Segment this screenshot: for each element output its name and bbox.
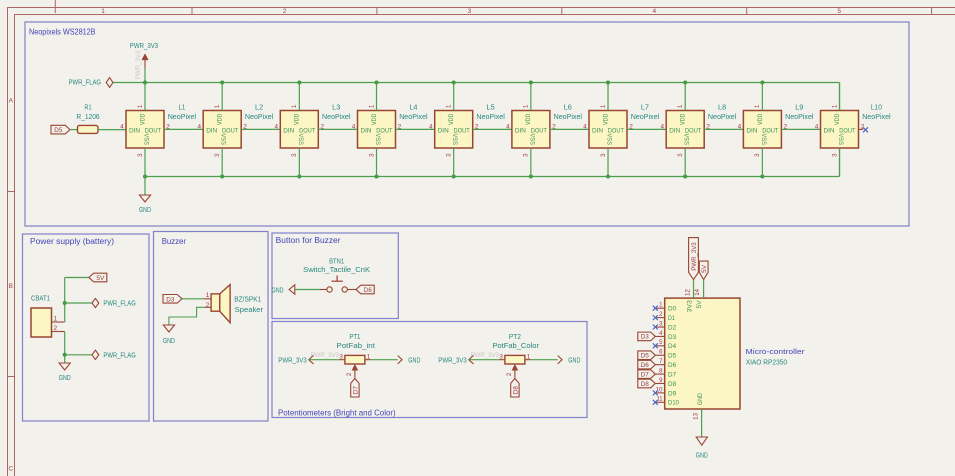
- pin 2 D1: [655, 312, 675, 322]
- svg-text:NeoPixel: NeoPixel: [862, 112, 891, 121]
- junction battery gnd: [63, 353, 67, 357]
- junction bottom rail 1: [143, 175, 147, 179]
- svg-text:GND: GND: [272, 285, 284, 294]
- svg-text:5V: 5V: [696, 300, 703, 309]
- svg-text:VDD: VDD: [294, 113, 301, 125]
- svg-text:R1: R1: [85, 103, 92, 112]
- section box Potentiometers: [272, 322, 587, 418]
- pin 9 D8: [655, 378, 676, 388]
- junction top rail 7: [606, 81, 610, 85]
- svg-text:GND: GND: [697, 393, 704, 405]
- svg-text:2: 2: [506, 372, 513, 376]
- svg-text:3: 3: [214, 153, 221, 157]
- wire VDD stub L5: [453, 83, 455, 111]
- svg-text:VSS: VSS: [760, 133, 767, 144]
- svg-text:GND: GND: [408, 355, 420, 364]
- power flag PWR_FLAG 2: [92, 350, 136, 359]
- power label PWR_3V3 (mcu): [689, 238, 699, 280]
- svg-text:VSS: VSS: [837, 133, 844, 144]
- svg-text:14: 14: [695, 288, 701, 296]
- svg-text:D9: D9: [668, 390, 676, 397]
- svg-text:VSS: VSS: [220, 134, 227, 145]
- wire battery pin1 up: [65, 278, 89, 323]
- svg-text:D10: D10: [668, 400, 679, 407]
- wire VSS stub L4: [376, 148, 378, 177]
- svg-text:DIN: DIN: [824, 127, 835, 134]
- svg-text:Power supply (battery): Power supply (battery): [30, 237, 114, 246]
- svg-text:D8: D8: [512, 386, 519, 395]
- svg-text:VSS: VSS: [605, 133, 612, 144]
- junction bottom rail 7: [606, 175, 610, 179]
- svg-text:L10: L10: [871, 103, 882, 112]
- svg-text:3: 3: [445, 153, 452, 157]
- svg-text:VDD: VDD: [525, 113, 532, 125]
- wire mcu gnd: [701, 409, 703, 437]
- svg-text:1: 1: [754, 104, 761, 108]
- svg-text:L8: L8: [718, 103, 726, 112]
- svg-text:DIN: DIN: [592, 127, 603, 134]
- svg-text:GND: GND: [696, 451, 708, 460]
- no-connect pin 2: [653, 315, 658, 320]
- svg-text:L4: L4: [409, 103, 417, 112]
- svg-text:1: 1: [214, 104, 221, 108]
- svg-text:3: 3: [291, 153, 298, 157]
- neopixel L3: [275, 103, 351, 157]
- svg-text:VSS: VSS: [142, 134, 149, 145]
- svg-text:5: 5: [837, 8, 841, 15]
- no-connect pin 3: [653, 325, 658, 330]
- svg-text:VSS: VSS: [374, 134, 381, 145]
- global label D3 (buzzer): [163, 295, 182, 304]
- svg-text:PotFab_int: PotFab_int: [336, 341, 375, 350]
- svg-text:VDD: VDD: [602, 113, 609, 125]
- svg-text:3: 3: [523, 153, 530, 157]
- wire DOUT L1 to DIN L2: [164, 128, 203, 130]
- svg-text:VDD: VDD: [448, 113, 455, 125]
- wire VSS stub L10: [839, 148, 841, 177]
- global label D8 (mcu): [638, 379, 656, 388]
- hierarchical label PWR_3V3 (PT2): [438, 352, 499, 364]
- hierarchical label PWR_3V3 (PT1): [278, 352, 339, 364]
- svg-text:PWR_3V3: PWR_3V3: [311, 352, 340, 359]
- wire DOUT L3 to DIN L4: [318, 128, 357, 130]
- svg-text:NeoPixel: NeoPixel: [785, 112, 814, 121]
- svg-text:1: 1: [368, 104, 375, 108]
- pin 6 D5: [655, 350, 676, 360]
- junction bottom rail 8: [683, 175, 687, 179]
- global label D8: [511, 379, 520, 398]
- wire 3V3 to PT2: [469, 359, 499, 361]
- global label D5 (mcu): [638, 351, 656, 360]
- wire VDD stub L4: [376, 83, 378, 111]
- svg-text:1: 1: [101, 8, 105, 15]
- svg-text:4: 4: [197, 123, 201, 130]
- svg-text:1: 1: [523, 104, 530, 108]
- wire to PWR_FLAG 2: [65, 354, 92, 356]
- pin 10 D9: [655, 387, 676, 397]
- neopixel L5: [429, 103, 505, 157]
- pin 11 D10: [655, 397, 679, 407]
- svg-text:PWR_FLAG: PWR_FLAG: [103, 350, 136, 359]
- svg-text:1: 1: [291, 104, 298, 108]
- wire gnd label to switch: [295, 289, 320, 291]
- wire R1 to L1: [98, 129, 126, 131]
- svg-text:PWR_3V3: PWR_3V3: [691, 242, 698, 271]
- svg-text:XIAO RP2350: XIAO RP2350: [746, 357, 787, 366]
- svg-text:DIN: DIN: [206, 127, 217, 134]
- wire DOUT L4 to DIN L5: [396, 128, 435, 130]
- junction bottom rail 6: [529, 175, 533, 179]
- global label D7: [351, 379, 360, 398]
- pin 4 D3: [655, 331, 676, 341]
- wire speaker pin2 to gnd: [169, 307, 211, 325]
- svg-text:DIN: DIN: [746, 127, 757, 134]
- wire VSS stub L5: [453, 148, 455, 177]
- speaker BZ/SPK1: [206, 285, 264, 323]
- svg-text:1: 1: [600, 104, 607, 108]
- wire VDD stub L7: [607, 83, 609, 111]
- svg-text:3V3: 3V3: [687, 300, 694, 312]
- svg-text:A: A: [9, 97, 14, 104]
- global label D5: [51, 125, 70, 134]
- svg-text:DIN: DIN: [515, 127, 526, 134]
- svg-text:D8: D8: [641, 381, 650, 388]
- svg-text:4: 4: [738, 123, 742, 130]
- svg-text:3: 3: [831, 153, 838, 157]
- svg-text:4: 4: [506, 123, 510, 130]
- wire VDD stub L10: [839, 83, 841, 111]
- svg-text:13: 13: [694, 412, 700, 420]
- svg-text:R_1206: R_1206: [76, 112, 99, 121]
- svg-text:Speaker: Speaker: [235, 305, 264, 314]
- neopixel L6: [506, 103, 582, 157]
- wire D5 to R1: [70, 129, 78, 131]
- wire VDD stub L6: [530, 83, 532, 111]
- svg-text:PWR_3V3: PWR_3V3: [471, 352, 500, 359]
- micro-controller U1 XIAO RP2350: [665, 298, 806, 409]
- wire D3 to speaker: [182, 298, 211, 300]
- hierarchical label GND (PT2): [558, 355, 581, 364]
- global label D7 (mcu): [638, 370, 656, 379]
- neopixel L7: [583, 103, 659, 157]
- svg-text:L5: L5: [487, 103, 495, 112]
- svg-text:Switch_Tactile_CnK: Switch_Tactile_CnK: [303, 265, 370, 274]
- wire DOUT L6 to DIN L7: [550, 128, 589, 130]
- junction top rail 5: [452, 81, 456, 85]
- svg-text:PotFab_Color: PotFab_Color: [492, 341, 539, 350]
- wire power stem: [144, 68, 146, 83]
- svg-text:1: 1: [831, 104, 838, 108]
- svg-text:L2: L2: [255, 103, 263, 112]
- svg-text:D5: D5: [54, 127, 63, 134]
- svg-text:D4: D4: [668, 343, 676, 350]
- svg-text:NeoPixel: NeoPixel: [554, 112, 583, 121]
- global label D6: [356, 285, 374, 294]
- svg-text:1: 1: [54, 315, 58, 322]
- svg-text:4: 4: [583, 123, 587, 130]
- power flag PWR_FLAG 1: [92, 298, 136, 307]
- svg-text:3: 3: [677, 153, 684, 157]
- neopixel L10: [815, 103, 891, 157]
- svg-text:BZ/SPK1: BZ/SPK1: [234, 295, 261, 304]
- svg-text:D8: D8: [668, 381, 676, 388]
- wire VSS stub L7: [607, 148, 609, 177]
- svg-text:VSS: VSS: [528, 133, 535, 144]
- pin 8 D7: [655, 368, 676, 378]
- neopixel L9: [738, 103, 814, 157]
- ground (mcu): [696, 437, 708, 460]
- potentiometer PT2: [492, 332, 539, 379]
- global label D6 (mcu): [638, 360, 656, 369]
- svg-text:VSS: VSS: [297, 133, 304, 144]
- wire VSS stub L6: [530, 148, 532, 177]
- svg-text:D3: D3: [668, 334, 676, 341]
- junction top rail 9: [760, 81, 764, 85]
- wire VSS stub L9: [761, 148, 763, 177]
- svg-text:VDD: VDD: [680, 113, 687, 125]
- wire VDD top rail: [113, 83, 840, 111]
- ground (buzzer): [163, 325, 175, 345]
- wire VDD stub L1: [144, 83, 146, 111]
- hierarchical label GND (PT1): [398, 355, 421, 364]
- wire to PWR_FLAG 1: [65, 302, 92, 304]
- power label 5V (mcu): [699, 261, 708, 280]
- pin 14 5V: [695, 288, 703, 308]
- junction top rail 8: [683, 81, 687, 85]
- wire VSS stub L3: [298, 148, 300, 177]
- svg-text:12: 12: [685, 288, 691, 296]
- svg-text:NeoPixel: NeoPixel: [245, 112, 274, 121]
- pin 7 D6: [655, 359, 676, 369]
- svg-text:NeoPixel: NeoPixel: [476, 112, 505, 121]
- svg-text:4: 4: [352, 123, 356, 130]
- wire battery pin2 down: [64, 332, 66, 364]
- svg-text:1: 1: [445, 104, 452, 108]
- svg-text:Micro-controller: Micro-controller: [746, 349, 806, 356]
- section box Button for Buzzer: [272, 233, 398, 319]
- svg-text:1: 1: [206, 292, 210, 299]
- svg-text:3: 3: [368, 153, 375, 157]
- svg-text:D3: D3: [641, 334, 650, 341]
- wire 3V3 tag to mcu: [693, 280, 695, 299]
- global label D3 (mcu): [638, 332, 656, 341]
- svg-text:3: 3: [137, 153, 144, 157]
- neopixel L8: [660, 103, 736, 157]
- junction top rail 4: [375, 81, 379, 85]
- wire PT2 to gnd: [531, 359, 558, 361]
- svg-text:D5: D5: [641, 353, 650, 360]
- wire GND stub: [144, 177, 146, 196]
- power label 5V: [89, 273, 107, 282]
- neopixel L2: [197, 103, 273, 157]
- wire DOUT L5 to DIN L6: [473, 128, 512, 130]
- svg-text:B: B: [9, 283, 13, 290]
- ground (battery): [59, 363, 71, 382]
- svg-text:VSS: VSS: [451, 134, 458, 145]
- junction top rail 3: [297, 81, 301, 85]
- svg-text:VDD: VDD: [139, 113, 146, 125]
- no-connect pin 1: [653, 306, 658, 311]
- no-connect pin 5: [653, 343, 658, 348]
- wire DOUT L7 to DIN L8: [627, 128, 666, 130]
- hierarchical label GND (button): [272, 285, 295, 295]
- junction top rail 6: [529, 81, 533, 85]
- no-connect L10 DOUT: [859, 127, 868, 132]
- svg-text:VDD: VDD: [834, 113, 841, 125]
- svg-text:PWR_3V3: PWR_3V3: [135, 50, 142, 79]
- svg-text:GND: GND: [139, 205, 151, 214]
- svg-text:GND: GND: [568, 355, 580, 364]
- svg-text:DIN: DIN: [129, 127, 140, 134]
- svg-text:3: 3: [468, 8, 472, 15]
- svg-text:NeoPixel: NeoPixel: [631, 112, 660, 121]
- svg-text:D7: D7: [352, 386, 359, 395]
- junction bottom rail 5: [452, 175, 456, 179]
- svg-text:D2: D2: [668, 324, 676, 331]
- wire PT1 to gnd: [371, 359, 398, 361]
- neopixel L4: [352, 103, 428, 157]
- svg-text:2: 2: [54, 325, 58, 332]
- svg-text:D0: D0: [668, 306, 676, 313]
- junction bottom rail 9: [760, 175, 764, 179]
- wire DOUT L9 to DIN L10: [781, 128, 820, 130]
- svg-text:Button for Buzzer: Button for Buzzer: [276, 236, 341, 245]
- svg-text:2: 2: [346, 372, 353, 376]
- power symbol PWR_3V3: [130, 41, 158, 79]
- svg-text:1: 1: [677, 104, 684, 108]
- junction bottom rail 2: [220, 175, 224, 179]
- svg-text:D7: D7: [641, 371, 650, 378]
- svg-text:C: C: [8, 465, 13, 472]
- pin 12 3V3: [685, 288, 693, 312]
- neopixel L1: [120, 103, 196, 157]
- wire VSS stub L8: [684, 148, 686, 177]
- svg-text:L7: L7: [641, 103, 649, 112]
- svg-text:5V: 5V: [701, 264, 708, 273]
- svg-text:Neopixels WS2812B: Neopixels WS2812B: [29, 28, 96, 37]
- pin 3 D2: [655, 321, 676, 331]
- svg-text:D6: D6: [364, 287, 373, 294]
- section box Buzzer: [154, 232, 269, 422]
- svg-text:4: 4: [120, 123, 124, 130]
- svg-text:10: 10: [656, 387, 664, 393]
- svg-text:VDD: VDD: [371, 113, 378, 125]
- svg-text:GND: GND: [59, 373, 71, 382]
- wire VDD stub L9: [761, 83, 763, 111]
- wire VDD stub L3: [298, 83, 300, 111]
- svg-text:D3: D3: [166, 296, 175, 303]
- wire 5V tag to mcu: [703, 280, 705, 299]
- svg-text:D6: D6: [641, 362, 650, 369]
- section box Neopixels WS2812B: [25, 22, 909, 226]
- svg-text:VDD: VDD: [217, 113, 224, 125]
- wire VDD stub L2: [221, 83, 223, 111]
- pin 1 D0: [655, 303, 676, 313]
- junction bottom rail 3: [297, 175, 301, 179]
- pin 5 D4: [655, 340, 676, 350]
- svg-text:3: 3: [754, 153, 761, 157]
- power flag PWR_FLAG (top rail): [69, 78, 113, 88]
- junction top rail 2: [220, 81, 224, 85]
- junction top rail 1: [143, 81, 147, 85]
- svg-text:4: 4: [815, 123, 819, 130]
- switch BTN1 Switch_Tactile_CnK: [303, 257, 370, 293]
- resistor R1: [76, 103, 99, 134]
- svg-text:D1: D1: [668, 315, 675, 322]
- svg-text:PT2: PT2: [509, 332, 521, 341]
- svg-text:PWR_3V3: PWR_3V3: [438, 355, 466, 364]
- svg-text:PWR_FLAG: PWR_FLAG: [103, 299, 136, 308]
- svg-text:PWR_FLAG: PWR_FLAG: [69, 78, 102, 87]
- svg-text:NeoPixel: NeoPixel: [322, 112, 351, 121]
- no-connect pin 10: [653, 390, 658, 395]
- wire 3V3 to PT1: [309, 359, 339, 361]
- svg-text:NeoPixel: NeoPixel: [168, 112, 197, 121]
- wire VSS stub L1: [144, 148, 146, 177]
- battery CBAT1: [31, 294, 65, 338]
- svg-text:DIN: DIN: [669, 127, 680, 134]
- wire DOUT L8 to DIN L9: [704, 128, 743, 130]
- junction battery 5V: [63, 301, 67, 305]
- junction bottom rail 4: [375, 175, 379, 179]
- svg-text:DIN: DIN: [283, 127, 294, 134]
- svg-text:PWR_3V3: PWR_3V3: [130, 41, 158, 50]
- svg-text:2: 2: [283, 8, 287, 15]
- svg-text:NeoPixel: NeoPixel: [708, 112, 737, 121]
- svg-text:D5: D5: [668, 353, 676, 360]
- potentiometer PT1: [336, 332, 375, 379]
- svg-text:L3: L3: [332, 103, 340, 112]
- svg-text:5V: 5V: [96, 275, 105, 282]
- wire VSS stub L2: [221, 148, 223, 177]
- svg-text:L9: L9: [795, 103, 803, 112]
- svg-text:DIN: DIN: [438, 127, 449, 134]
- svg-text:GND: GND: [163, 336, 175, 345]
- wire DOUT L2 to DIN L3: [241, 128, 280, 130]
- wire VSS bottom rail: [145, 148, 840, 177]
- svg-text:3: 3: [600, 153, 607, 157]
- svg-text:NeoPixel: NeoPixel: [399, 112, 428, 121]
- wire VDD stub L8: [684, 83, 686, 111]
- svg-text:PWR_3V3: PWR_3V3: [278, 355, 306, 364]
- svg-text:D7: D7: [668, 371, 676, 378]
- svg-text:L6: L6: [564, 103, 572, 112]
- svg-text:CBAT1: CBAT1: [31, 294, 50, 303]
- ground (neopixel rail): [139, 195, 151, 214]
- svg-text:1: 1: [137, 104, 144, 108]
- svg-text:VSS: VSS: [683, 133, 690, 144]
- svg-text:VDD: VDD: [757, 113, 764, 125]
- svg-text:Buzzer: Buzzer: [162, 237, 187, 246]
- svg-text:4: 4: [275, 123, 279, 130]
- no-connect pin 11: [653, 400, 658, 405]
- pin 13 GND: [694, 393, 704, 420]
- svg-text:Potentiometers (Bright and Col: Potentiometers (Bright and Color): [278, 408, 396, 417]
- svg-text:D6: D6: [668, 362, 676, 369]
- svg-text:4: 4: [652, 8, 656, 15]
- svg-text:L1: L1: [178, 103, 185, 112]
- svg-text:PT1: PT1: [349, 332, 360, 341]
- svg-text:4: 4: [660, 123, 664, 130]
- section box Power supply (battery): [23, 234, 150, 421]
- svg-text:DIN: DIN: [361, 127, 372, 134]
- svg-text:4: 4: [429, 123, 433, 130]
